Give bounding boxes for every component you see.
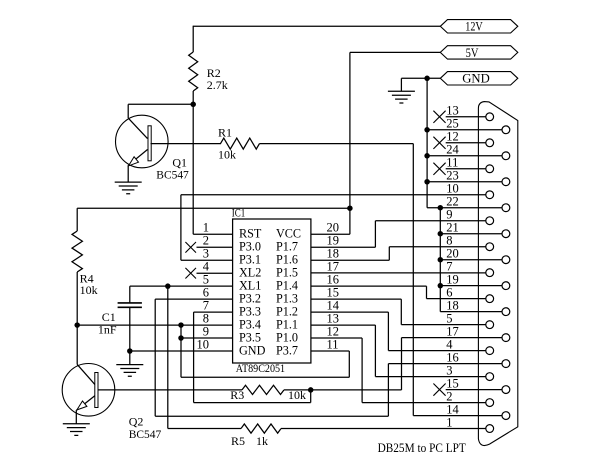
svg-text:P1.5: P1.5 — [276, 266, 298, 280]
svg-text:5: 5 — [446, 311, 452, 325]
wire C1 top lead — [129, 286, 131, 303]
svg-text:16: 16 — [446, 350, 459, 364]
node XL1/C1 junction — [165, 283, 171, 289]
connector pad pin 4 — [486, 347, 494, 355]
wire P3.7 link row — [181, 376, 349, 378]
svg-text:4: 4 — [446, 337, 453, 351]
wire riser P3.4/P3.5/P3.7 — [180, 325, 182, 377]
stub DB25 pin 11 — [446, 168, 486, 170]
svg-text:BC547: BC547 — [129, 427, 162, 441]
svg-text:20: 20 — [446, 247, 459, 261]
stub DB25 pin 13 — [446, 116, 486, 118]
svg-text:19: 19 — [327, 234, 340, 248]
connector pad pin 8 — [486, 243, 494, 251]
wire P3.5 stub — [181, 337, 233, 339]
wire P1.3 riser — [400, 299, 402, 324]
connector pad pin 7 — [486, 269, 494, 277]
svg-text:6: 6 — [203, 286, 209, 300]
wire RST stub to IC pin 1 — [193, 233, 232, 235]
wire P1.4 riser — [426, 286, 428, 298]
wire VCC stub — [311, 233, 350, 235]
connector pad pin 24 — [502, 152, 510, 160]
svg-text:1: 1 — [203, 221, 209, 235]
svg-text:22: 22 — [446, 195, 459, 209]
svg-text:18: 18 — [327, 247, 340, 261]
svg-text:8: 8 — [446, 234, 452, 248]
svg-text:17: 17 — [446, 324, 459, 338]
wire gnd symbol lead — [400, 78, 402, 91]
resistor R3 — [242, 385, 284, 394]
wire to DB25 pin 6 — [427, 298, 486, 300]
svg-text:P3.5: P3.5 — [239, 330, 261, 344]
wire P3.3 stub — [194, 311, 233, 313]
wire Q2 collector lead — [76, 325, 78, 364]
wire down to pin14 row — [412, 144, 414, 416]
svg-text:10k: 10k — [218, 148, 236, 162]
svg-text:GND: GND — [462, 71, 490, 86]
svg-text:P1.2: P1.2 — [276, 304, 298, 318]
wire P3.1 riser — [180, 195, 182, 260]
wire P1.1 riser — [374, 325, 376, 377]
svg-text:13: 13 — [327, 312, 340, 326]
wire to DB25 pin 4 — [388, 350, 485, 352]
connector pad pin 9 — [486, 217, 494, 225]
op-amp-style IC body U1/IC1 — [233, 219, 311, 363]
svg-text:P1.4: P1.4 — [276, 279, 298, 293]
node R2/Q1 collector junction — [190, 102, 196, 108]
ground under Q1 — [115, 182, 142, 194]
svg-text:RST: RST — [239, 227, 262, 241]
wire to R5 — [168, 428, 241, 430]
wire to DB25 pin 19 — [440, 285, 502, 287]
no-connect X on IC pin 4 — [185, 268, 196, 279]
connector pad pin 2 — [486, 399, 494, 407]
node gnd rail B top — [438, 205, 444, 211]
svg-text:P1.3: P1.3 — [276, 291, 298, 305]
resistor R1 — [221, 138, 260, 149]
svg-text:P3.0: P3.0 — [239, 240, 261, 254]
wire P1.7 riser — [374, 221, 376, 248]
node P3.4 riser junction — [178, 322, 184, 328]
svg-text:2.7k: 2.7k — [207, 78, 228, 92]
wire Q1 collector top — [128, 103, 193, 105]
connector pad pin 18 — [502, 308, 510, 316]
wire P3.2 riser right — [387, 364, 389, 417]
wire Q1 base — [151, 143, 222, 145]
wire P1.6 stub — [311, 259, 389, 261]
wire P1.5 to DB25 pin 7 — [311, 272, 486, 274]
svg-text:P1.0: P1.0 — [276, 330, 298, 344]
wire to DB25 pin 5 — [401, 324, 486, 326]
resistor R2 — [189, 52, 198, 91]
svg-text:DB25M to PC LPT: DB25M to PC LPT — [378, 440, 466, 455]
svg-text:P1.1: P1.1 — [276, 317, 298, 331]
svg-text:20: 20 — [327, 221, 340, 235]
wire P3.2 bottom run — [155, 415, 388, 417]
wire to DB25 pin 22 — [427, 207, 502, 209]
node P3.5 junction — [178, 335, 184, 341]
svg-text:18: 18 — [446, 298, 459, 312]
svg-text:3: 3 — [203, 247, 209, 261]
svg-text:5V: 5V — [466, 45, 479, 60]
wire C1 top link — [130, 285, 168, 287]
svg-text:R5: R5 — [231, 434, 245, 448]
svg-text:XL1: XL1 — [239, 279, 261, 293]
wire pin17 riser — [401, 338, 403, 390]
wire R1 to right — [260, 143, 414, 145]
wire P3.3 bottom run — [194, 402, 311, 404]
transistor Q2 — [62, 364, 115, 424]
wire 12V rail top — [193, 25, 440, 27]
resistor R5 — [241, 424, 281, 433]
node gnd rail pin 19 — [438, 283, 444, 289]
wire to DB25 pin 9 — [375, 220, 485, 222]
wire C1 bottom lead — [129, 307, 131, 351]
svg-text:14: 14 — [446, 402, 459, 416]
wire R2 bottom to node — [192, 91, 194, 104]
wire 5V flag lead — [350, 51, 440, 53]
node R3/P3.3 junction — [308, 387, 314, 393]
svg-text:8: 8 — [203, 312, 209, 326]
wire R4 top lead — [76, 208, 78, 231]
wire XL1 stub — [168, 285, 233, 287]
node gnd rail pin 21 — [438, 231, 444, 237]
wire to DB25 pin 16 — [388, 363, 502, 365]
wire to DB25 pin 23 — [427, 181, 502, 183]
svg-text:R1: R1 — [218, 126, 232, 140]
node gnd rail pin 20 — [438, 257, 444, 263]
wire to DB25 pin 3 — [375, 376, 485, 378]
wire P3.3 riser — [193, 312, 195, 402]
wire P1.4 stub — [311, 285, 427, 287]
svg-text:5: 5 — [203, 273, 209, 287]
stub DB25 pin 12 — [446, 142, 486, 144]
connector pad pin 20 — [502, 256, 510, 264]
connector pad pin 16 — [502, 360, 510, 368]
node C1/GND junction — [127, 348, 133, 354]
connector pad pin 23 — [502, 178, 510, 186]
stub DB25 pin 15 — [446, 389, 502, 391]
wire P1.2 riser — [387, 312, 389, 351]
wire P1.6 riser — [388, 247, 390, 261]
wire node to RST down — [192, 104, 194, 234]
capacitor C1 — [118, 303, 142, 307]
wire 12V down to R2 — [192, 26, 194, 52]
wire to DB25 pin 24 — [427, 155, 502, 157]
node GND rail top — [424, 76, 430, 82]
power flag 5V — [440, 45, 518, 60]
node gnd rail pin 25 — [424, 127, 430, 133]
connector pad pin 12 — [486, 139, 494, 147]
svg-text:19: 19 — [446, 273, 459, 287]
wire to DB25 pin 8 — [389, 246, 486, 248]
connector pad pin 25 — [502, 126, 510, 134]
svg-text:BC547: BC547 — [156, 167, 189, 181]
svg-text:21: 21 — [446, 221, 459, 235]
svg-text:24: 24 — [446, 143, 459, 157]
svg-text:GND: GND — [239, 343, 266, 357]
wire P3.2 riser — [154, 299, 156, 416]
svg-text:R3: R3 — [230, 388, 244, 402]
svg-text:P3.2: P3.2 — [239, 291, 261, 305]
wire to DB25 pin 18 — [440, 311, 502, 313]
svg-text:15: 15 — [446, 376, 459, 390]
wire to DB25 pin 20 — [440, 259, 502, 261]
svg-text:10: 10 — [446, 182, 459, 196]
svg-text:P3.4: P3.4 — [239, 317, 261, 331]
svg-text:2: 2 — [446, 389, 452, 403]
svg-text:P1.6: P1.6 — [276, 253, 298, 267]
wire IC GND stub — [130, 350, 233, 352]
transistor Q1 — [116, 104, 169, 182]
wire P3.1 stub — [181, 259, 233, 261]
svg-text:7: 7 — [446, 260, 452, 274]
wire 5V rail down — [349, 52, 351, 234]
wire ground rail A — [426, 78, 428, 207]
connector pad pin 22 — [502, 204, 510, 212]
connector DB25M body — [478, 102, 517, 446]
wire R3 node riser — [310, 390, 312, 403]
node gnd rail pin 24 — [424, 153, 430, 159]
connector pad pin 6 — [486, 295, 494, 303]
svg-text:VCC: VCC — [276, 227, 301, 241]
wire R5 to DB25 pin 1 — [281, 428, 486, 430]
svg-text:P1.7: P1.7 — [276, 240, 298, 254]
wire to DB25 pin 21 — [440, 233, 502, 235]
wire XL1 riser — [167, 286, 169, 428]
connector pad pin 10 — [486, 191, 494, 199]
svg-text:P3.3: P3.3 — [239, 304, 261, 318]
ground under C1 — [116, 365, 143, 377]
svg-text:P3.1: P3.1 — [239, 253, 261, 267]
wire to DB25 pin 14 — [413, 415, 502, 417]
svg-text:1: 1 — [446, 415, 452, 429]
wire C1 ground lead — [129, 351, 131, 365]
connector pad pin 21 — [502, 230, 510, 238]
wire P3.4 row — [77, 324, 232, 326]
svg-text:10k: 10k — [80, 283, 98, 297]
stub IC pin 4 — [197, 272, 233, 274]
wire R4 top to 5V rail — [77, 207, 350, 209]
ground at GND flag — [388, 91, 415, 103]
connector pad pin 17 — [502, 334, 510, 342]
wire P1.3 stub — [311, 298, 401, 300]
svg-text:15: 15 — [327, 286, 340, 300]
no-connect X on IC pin 2 — [185, 242, 196, 253]
no-connect X on DB25 pin 12 — [433, 137, 445, 149]
node 5V/R4 junction — [347, 205, 353, 211]
ground under Q2 — [63, 424, 90, 436]
wire P3.2 stub — [155, 298, 232, 300]
svg-text:1k: 1k — [256, 434, 268, 448]
wire P1.0 stub — [311, 337, 362, 339]
svg-text:P3.7: P3.7 — [276, 343, 298, 357]
wire R4 bottom lead — [76, 272, 78, 325]
wire to DB25 pin 2 — [362, 402, 486, 404]
power flag GND — [440, 71, 518, 86]
svg-text:16: 16 — [327, 273, 340, 287]
svg-text:12V: 12V — [465, 19, 483, 34]
svg-text:9: 9 — [446, 208, 452, 222]
svg-text:10: 10 — [197, 337, 210, 351]
svg-text:17: 17 — [327, 260, 340, 274]
svg-text:25: 25 — [446, 117, 459, 131]
wire P1.0 riser — [361, 338, 363, 403]
wire ground rail B — [439, 208, 441, 312]
connector pad pin 15 — [502, 386, 510, 394]
wire R3 to node — [284, 389, 311, 391]
svg-text:AT89C2051: AT89C2051 — [236, 361, 285, 375]
svg-text:XL2: XL2 — [239, 266, 261, 280]
no-connect X on DB25 pin 11 — [433, 163, 445, 175]
connector pad pin 14 — [502, 412, 510, 420]
svg-text:7: 7 — [203, 299, 209, 313]
connector pad pin 3 — [486, 373, 494, 381]
no-connect X on DB25 pin 15 — [433, 384, 445, 396]
wire P1.2 stub — [311, 311, 389, 313]
svg-text:IC1: IC1 — [232, 208, 246, 220]
resistor R4 — [72, 231, 82, 272]
wire GND flag lead — [401, 77, 440, 79]
svg-text:11: 11 — [446, 156, 458, 170]
node gnd rail pin 23 — [424, 179, 430, 185]
wire P3.7 stub — [311, 350, 349, 352]
wire P1.1 stub — [311, 324, 376, 326]
svg-text:3: 3 — [446, 363, 452, 377]
connector pad pin 19 — [502, 282, 510, 290]
svg-text:6: 6 — [446, 286, 452, 300]
svg-text:13: 13 — [446, 104, 459, 118]
no-connect X on DB25 pin 13 — [433, 111, 445, 123]
svg-text:4: 4 — [203, 260, 210, 274]
svg-text:9: 9 — [203, 325, 209, 339]
node R4/Q2 collector/P3.4 — [74, 322, 80, 328]
connector pad pin 11 — [486, 165, 494, 173]
svg-text:2: 2 — [203, 234, 209, 248]
wire P1.7 stub — [311, 246, 376, 248]
wire P3.7 riser — [348, 351, 350, 377]
power flag 12V — [440, 19, 518, 34]
wire P3.1 to DB25 pin 10 — [181, 194, 486, 196]
svg-text:1nF: 1nF — [98, 323, 117, 337]
wire node to pin17 riser — [311, 389, 402, 391]
wire to DB25 pin 25 — [427, 129, 502, 131]
wire to DB25 pin 17 — [402, 337, 503, 339]
wire Q2 base to R3 — [98, 389, 242, 391]
svg-text:12: 12 — [446, 130, 459, 144]
svg-text:12: 12 — [327, 325, 340, 339]
connector pad pin 5 — [486, 321, 494, 329]
stub IC pin 2 — [197, 246, 233, 248]
connector pad pin 1 — [486, 425, 494, 433]
svg-text:14: 14 — [327, 299, 340, 313]
connector pad pin 13 — [486, 113, 494, 121]
svg-text:11: 11 — [327, 337, 339, 351]
svg-text:23: 23 — [446, 169, 459, 183]
